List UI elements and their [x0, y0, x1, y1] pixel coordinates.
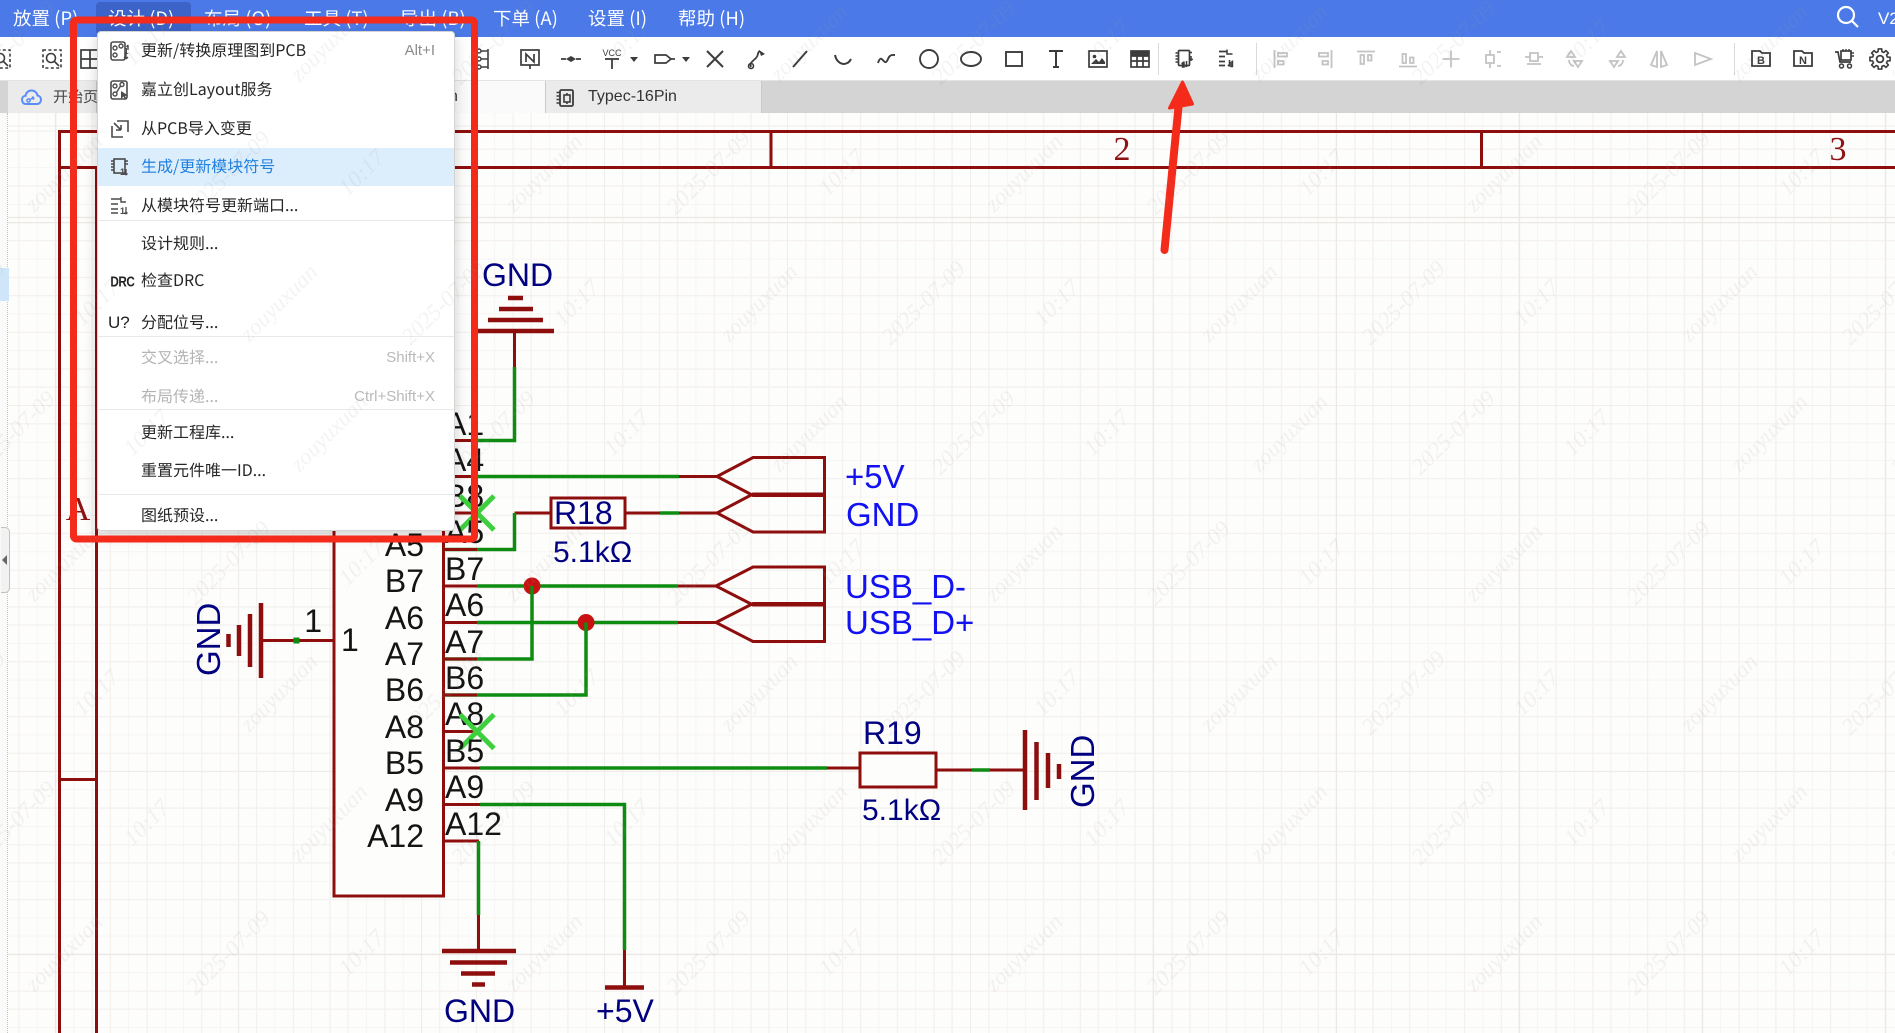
toolbar: generate module symbol	[1173, 47, 1197, 71]
wire junction B7 down to A7 (green)	[443, 586, 532, 659]
svg-text:B7: B7	[445, 551, 484, 587]
+5V symbol stem (dark red)	[623, 950, 626, 987]
right GND symbol (rotated, bars vertical)	[1025, 730, 1059, 810]
menu item i9	[142, 349, 217, 364]
junction dot on A6 wire	[578, 614, 595, 631]
menu item i5	[142, 197, 298, 212]
R18 right lead to GND flag	[625, 512, 660, 515]
wire R18 to pin A5 (green, down and left)	[443, 513, 515, 550]
pin B5 stub	[443, 767, 480, 770]
svg-text:GND: GND	[444, 993, 515, 1029]
menubar item m_bangzhu	[679, 9, 743, 28]
menubar item m_xiadan	[494, 10, 556, 29]
sheet border: inner left line	[95, 166, 98, 1033]
svg-text:R18: R18	[554, 495, 613, 531]
R19 left lead	[827, 767, 860, 770]
toolbar: arrange icon (disabled)	[1439, 47, 1463, 71]
bottom GND stem (dark red)	[477, 915, 480, 951]
pin A6 stub	[443, 621, 477, 624]
toolbar: line tool	[788, 47, 812, 71]
toolbar: settings gear	[1868, 47, 1892, 71]
connector J? body (USB Type-C 16pin)	[334, 415, 444, 896]
junction dot (small green) on pin1 wire	[294, 638, 300, 644]
svg-text:B6: B6	[385, 672, 424, 708]
menu icon: update schematic to PCB	[109, 40, 131, 62]
tab kaishiye	[54, 89, 97, 103]
menubar item m_buju	[205, 9, 270, 28]
toolbar: arrange icon (disabled)	[1647, 47, 1671, 71]
no-connect X on A8	[460, 715, 494, 749]
toolbar: no connect tool	[703, 47, 727, 71]
sheet border: outer left line	[58, 130, 61, 1033]
tab bar	[0, 81, 1895, 113]
svg-text:+5V: +5V	[845, 458, 905, 495]
pin B7 stub	[443, 585, 477, 588]
toolbar: rectangle tool	[1002, 47, 1026, 71]
menu item i8	[142, 314, 217, 329]
toolbar: library N	[1791, 47, 1815, 71]
schematic tab chip icon	[555, 88, 577, 108]
toolbar: arrange icon (disabled)	[1605, 47, 1629, 71]
menu icon: import changes from PCB	[109, 118, 131, 140]
+5V power symbol bar	[605, 985, 644, 990]
toolbar: arrange icon (disabled)	[1563, 47, 1587, 71]
menu item i10	[141, 389, 217, 404]
wire B5 to R19 (green)	[480, 766, 827, 770]
start page cloud icon	[21, 88, 42, 107]
svg-text:N: N	[1799, 55, 1807, 67]
resistor R19	[860, 753, 936, 787]
svg-text:A8: A8	[445, 696, 484, 732]
toolbar: arrange icon (disabled)	[1691, 47, 1715, 71]
toolbar: arrange icon (disabled)	[1522, 47, 1546, 71]
pin A12 stub	[443, 840, 479, 843]
sheet border: inner top line	[59, 166, 1895, 169]
toolbar: pin tool	[474, 47, 498, 71]
toolbar: table tool	[1128, 47, 1152, 71]
USB_D+ net flag	[716, 604, 825, 642]
svg-text:5.1kΩ: 5.1kΩ	[862, 794, 941, 827]
toolbar: update ports from module	[1216, 47, 1240, 71]
menubar item m_gongju	[305, 10, 367, 29]
toolbar	[0, 37, 1895, 81]
toolbar: box zoom icon	[40, 47, 64, 71]
toolbar: text tool	[1044, 47, 1068, 71]
svg-text:1: 1	[124, 47, 129, 56]
pin A1 stub	[443, 439, 477, 442]
pin B6 stub	[443, 694, 477, 697]
toolbar: dropdown caret 1	[622, 47, 646, 71]
svg-text:B6: B6	[445, 660, 484, 696]
svg-text:GND: GND	[482, 257, 553, 293]
no-connect X on B8	[460, 496, 494, 530]
svg-text:A5: A5	[385, 527, 424, 563]
junction dot on B7 wire	[524, 578, 541, 595]
menu icon: JLC layout service	[109, 79, 131, 101]
svg-text:2: 2	[1114, 131, 1131, 168]
svg-text:USB_D-: USB_D-	[845, 568, 966, 605]
GND net flag	[717, 494, 825, 532]
annotation rectangle	[74, 20, 475, 539]
menu icon: assign designators U?	[108, 313, 130, 333]
svg-text:A9: A9	[445, 769, 484, 805]
top GND stem (dark red)	[513, 331, 516, 367]
menu item i1	[142, 42, 306, 58]
menu item i6	[142, 236, 217, 251]
toolbar: arc tool	[831, 47, 855, 71]
svg-text:B5: B5	[385, 745, 424, 781]
pin A7 stub	[443, 658, 477, 661]
menu icon: generate module symbol	[109, 156, 131, 178]
menu item i13	[142, 508, 217, 523]
toolbar: ellipse tool	[959, 47, 983, 71]
menu icon: DRC	[110, 273, 134, 290]
toolbar: VCC tool	[600, 47, 624, 71]
svg-text:1: 1	[120, 206, 125, 216]
menubar item m_fangzhi	[13, 9, 76, 28]
svg-text:5.1kΩ: 5.1kΩ	[553, 536, 632, 569]
svg-text:A7: A7	[445, 624, 484, 660]
toolbar: dropdown caret 2	[674, 47, 698, 71]
svg-text:USB_D+: USB_D+	[845, 604, 974, 641]
svg-text:B7: B7	[385, 563, 424, 599]
menubar item m_sheji	[109, 10, 173, 29]
wire A1 to top GND (green)	[477, 367, 515, 441]
svg-text:1: 1	[304, 603, 322, 639]
svg-text:VCC: VCC	[602, 48, 622, 58]
dropdown menu panel	[97, 31, 455, 531]
svg-text:3: 3	[1830, 131, 1847, 168]
svg-text:GND: GND	[846, 496, 919, 533]
annotation arrow	[1165, 107, 1179, 250]
wire B7 to USB_D- flag (green)	[477, 584, 678, 588]
pin A4 stub	[443, 475, 477, 478]
+5V net flag	[717, 458, 825, 496]
top menu bar	[0, 0, 1895, 37]
pin 1 stub (left side) + GND wire	[263, 639, 334, 642]
pin A8 stub	[443, 730, 477, 733]
svg-text:A7: A7	[385, 636, 424, 672]
svg-text:A12: A12	[367, 818, 424, 854]
menubar item m_shezhi	[589, 10, 646, 29]
bottom GND symbol	[442, 951, 516, 985]
wire junction A6 down to B6 (green)	[443, 623, 586, 696]
left GND symbol (rotated, bars vertical)	[229, 603, 262, 678]
USB_D- net flag	[716, 567, 825, 605]
toolbar: library B	[1749, 47, 1773, 71]
toolbar: netflag tool	[652, 47, 676, 71]
toolbar: arrange icon (disabled)	[1270, 47, 1294, 71]
wire A12 down to bottom GND (green)	[477, 841, 481, 915]
toolbar: net port tool	[559, 47, 583, 71]
svg-text:A6: A6	[385, 600, 424, 636]
toolbar: arrange icon (disabled)	[1480, 47, 1504, 71]
toolbar: grid icon	[78, 47, 102, 71]
svg-text:GND: GND	[1064, 735, 1101, 808]
svg-text:+5V: +5V	[596, 993, 654, 1029]
svg-text:GND: GND	[190, 603, 227, 676]
wire A9 to bottom +5V (green)	[480, 805, 625, 951]
wire A6 to USB_D+ flag (green)	[477, 621, 678, 625]
wire A4 to +5V flag (green then dark red)	[477, 475, 679, 479]
pin B8 stub	[443, 512, 477, 515]
svg-text:1: 1	[341, 622, 359, 658]
menubar item m_daochu	[401, 9, 464, 28]
svg-text:1: 1	[120, 167, 125, 177]
svg-text:B: B	[1757, 55, 1765, 67]
R18 left lead (dark red)	[515, 512, 552, 515]
svg-text:B5: B5	[445, 733, 484, 769]
sheet border: column tick at x770	[770, 130, 773, 169]
toolbar: arrange icon (disabled)	[1396, 47, 1420, 71]
resistor R18	[551, 498, 625, 528]
toolbar: arrange icon (disabled)	[1354, 47, 1378, 71]
svg-text:A6: A6	[445, 587, 484, 623]
svg-text:A8: A8	[385, 709, 424, 745]
sheet border: row tick at y779	[59, 778, 98, 781]
pin A5 stub	[443, 548, 477, 551]
toolbar: probe tool	[745, 47, 769, 71]
sheet border: outer top line	[59, 130, 1895, 133]
menu icon: update ports from module symbol	[109, 195, 131, 217]
svg-text:A9: A9	[385, 782, 424, 818]
menu item i2	[142, 81, 272, 98]
menu item i12	[142, 463, 265, 478]
toolbar: circle tool	[917, 47, 941, 71]
menu item i7	[142, 272, 204, 287]
svg-text:R19: R19	[863, 715, 922, 751]
pin A9 stub	[443, 803, 480, 806]
menu item i4	[142, 158, 274, 174]
search icon	[1835, 4, 1861, 30]
menu item i11	[142, 424, 233, 439]
menu item i3	[142, 120, 252, 135]
toolbar: partial zoom icon at left edge	[0, 47, 13, 71]
toolbar: image tool	[1086, 47, 1110, 71]
sheet border: column tick at x1481	[1480, 130, 1483, 169]
toolbar: arrange icon (disabled)	[1312, 47, 1336, 71]
top GND symbol (inverted, bars above)	[477, 298, 554, 331]
toolbar: bezier tool	[874, 47, 898, 71]
svg-text:A12: A12	[445, 806, 502, 842]
toolbar: net label tool	[518, 47, 542, 71]
R19 right lead to GND	[936, 769, 972, 772]
toolbar: order cart	[1833, 47, 1857, 71]
svg-text:A: A	[66, 491, 91, 528]
